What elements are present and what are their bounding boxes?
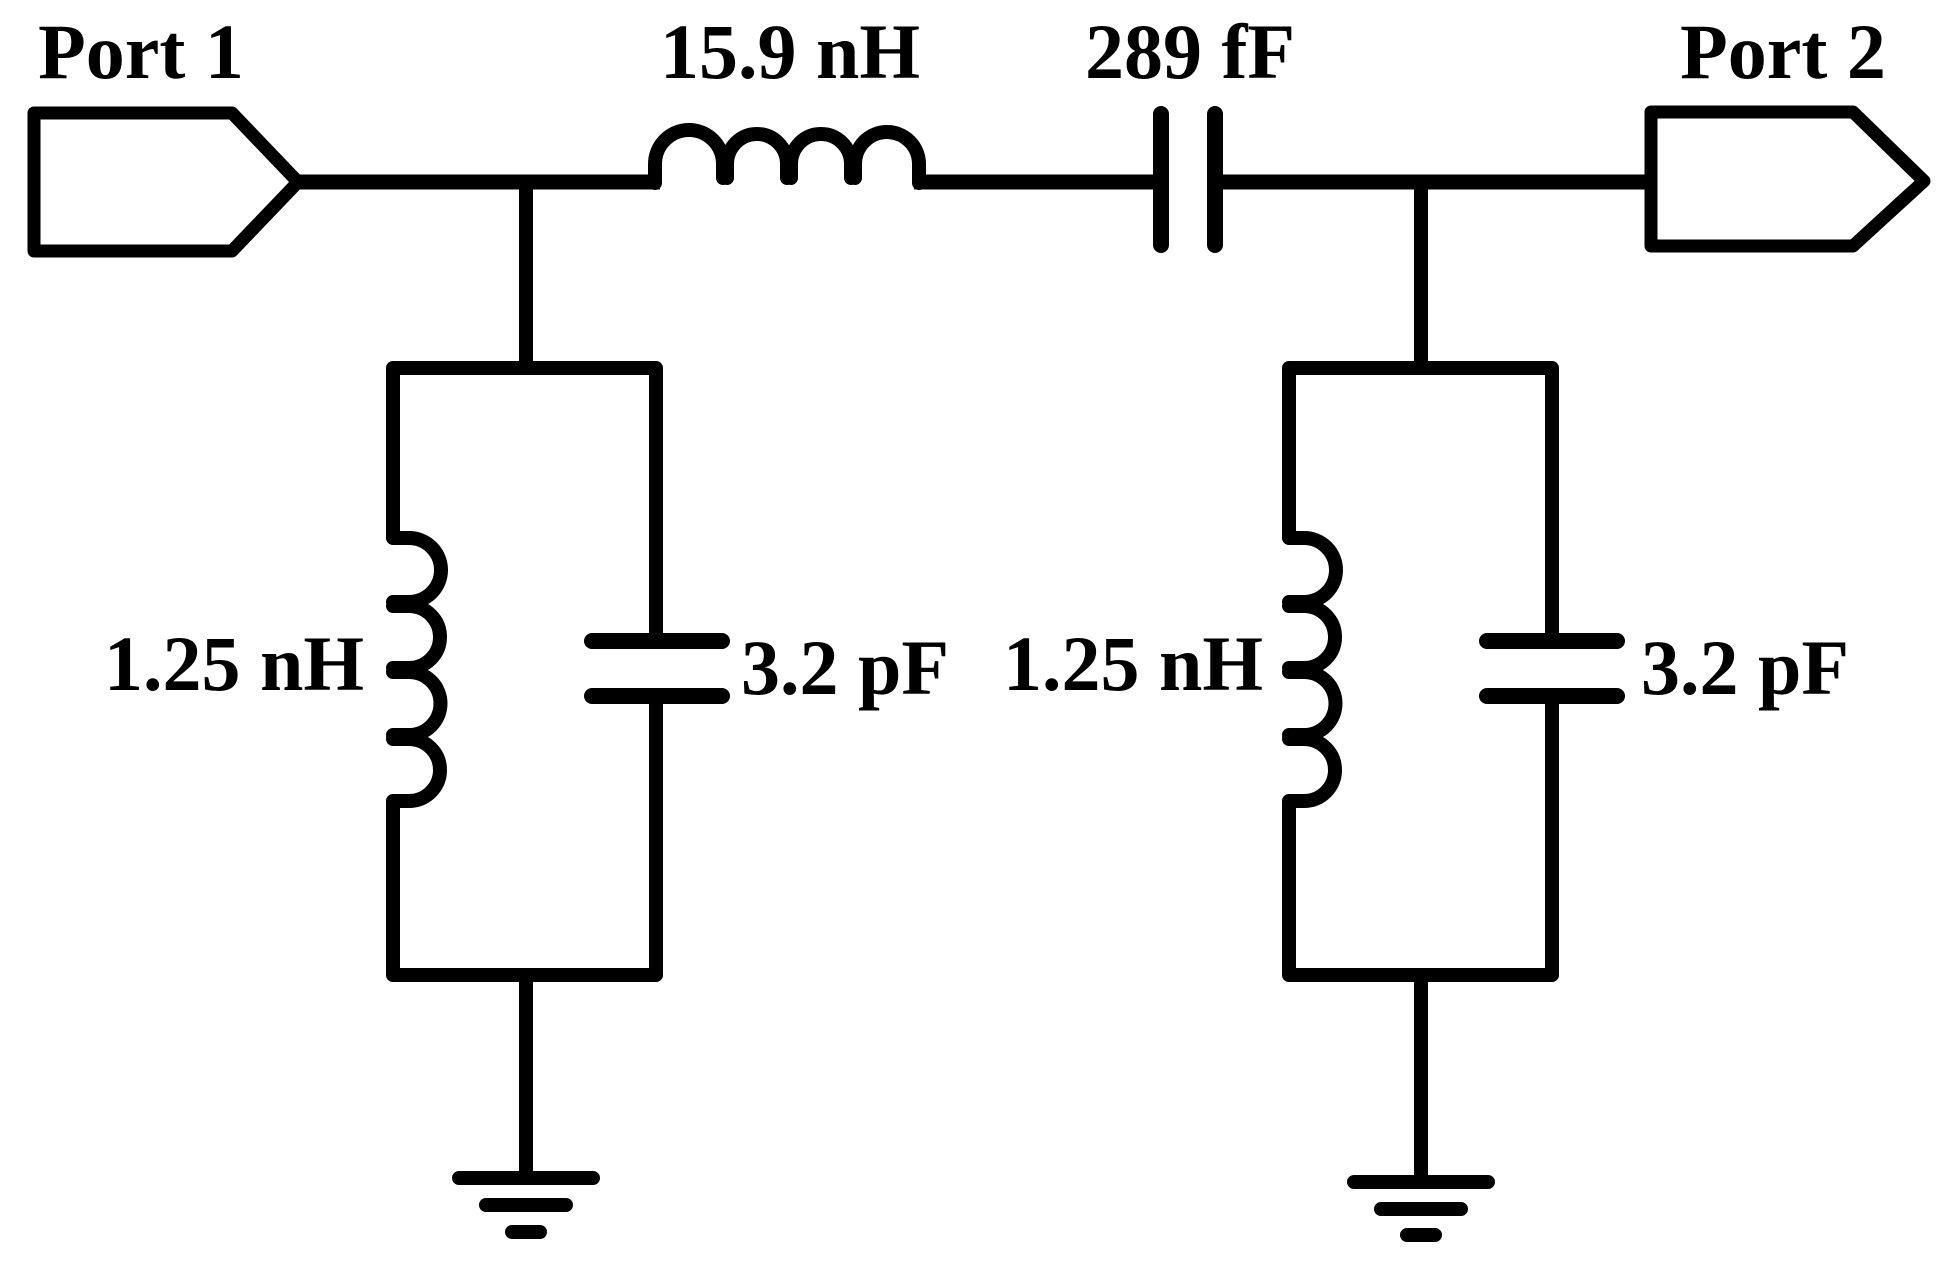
svg-text:15.9 nH: 15.9 nH xyxy=(660,8,920,95)
wire L1 to C1 xyxy=(914,175,1154,190)
svg-text:3.2 pF: 3.2 pF xyxy=(1641,624,1849,711)
label Port 2 xyxy=(1680,8,1886,95)
inductor L1 15.9 nH (series) xyxy=(655,130,919,183)
ground GND2 xyxy=(1354,1182,1488,1235)
label 3.2 pF (left) xyxy=(741,624,949,711)
svg-text:Port 2: Port 2 xyxy=(1680,8,1886,95)
svg-text:Port 1: Port 1 xyxy=(38,8,244,95)
capacitor C2 3.2 pF (left shunt) top plate xyxy=(592,633,722,649)
svg-text:289 fF: 289 fF xyxy=(1085,8,1295,95)
ground GND1 xyxy=(459,1178,593,1232)
svg-text:1.25 nH: 1.25 nH xyxy=(104,620,364,707)
label 15.9 nH xyxy=(660,8,920,95)
label 3.2 pF (right) xyxy=(1641,624,1849,711)
capacitor C1 289 fF (series) : left plate xyxy=(1153,114,1169,245)
node A tee wire down (left shunt) xyxy=(519,182,533,368)
capacitor C3 3.2 pF (right shunt) top plate xyxy=(1487,633,1617,649)
wire left tank to ground xyxy=(519,975,533,1178)
inductor L2 1.25 nH (left shunt coil) xyxy=(393,538,441,801)
capacitor C2 bottom plate xyxy=(592,688,722,704)
port P2 symbol xyxy=(1651,112,1924,246)
wire port1 to L1 xyxy=(294,175,660,190)
label Port 1 xyxy=(38,8,244,95)
svg-text:3.2 pF: 3.2 pF xyxy=(741,624,949,711)
label 1.25 nH (left) xyxy=(104,620,364,707)
right tank rectangle wires xyxy=(1289,368,1552,975)
capacitor C3 bottom plate xyxy=(1487,688,1617,704)
svg-text:1.25 nH: 1.25 nH xyxy=(1003,620,1263,707)
label 289 fF xyxy=(1085,8,1295,95)
label 1.25 nH (right) xyxy=(1003,620,1263,707)
port P1 symbol xyxy=(34,113,298,251)
left tank rectangle wires xyxy=(393,368,656,975)
inductor L3 1.25 nH (right shunt coil) xyxy=(1289,538,1336,801)
capacitor C1 right plate xyxy=(1207,114,1223,245)
wire right tank to ground xyxy=(1414,974,1428,1182)
node B tee wire down (right shunt) xyxy=(1414,182,1428,368)
wire C1 to port2 xyxy=(1222,175,1652,190)
